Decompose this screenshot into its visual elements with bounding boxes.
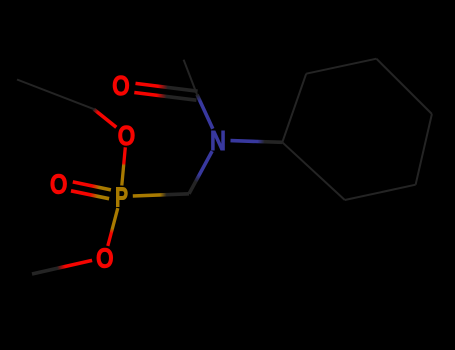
cyclohexyl ring bond 1 bbox=[282, 74, 306, 143]
svg-text:N: N bbox=[210, 126, 226, 157]
cyclohexyl ring bond 2 bbox=[306, 59, 376, 74]
bond O-CH3 (methyl ester) bbox=[32, 260, 92, 274]
bond N-C1 (N-cyclohexyl) bbox=[231, 141, 283, 143]
bond N-C (amide) bbox=[197, 95, 213, 129]
bond CH2-CH3 (ethyl) bbox=[17, 80, 94, 110]
bond O-CH2 (ethyl ester) bbox=[94, 109, 117, 127]
bond P-O (lower ester O) bbox=[108, 208, 118, 246]
bond C-CH3 (acetyl methyl) bbox=[184, 60, 197, 95]
bond P-O (upper ester O) bbox=[122, 147, 126, 185]
svg-text:P: P bbox=[115, 182, 128, 213]
svg-text:O: O bbox=[118, 121, 136, 152]
svg-text:O: O bbox=[112, 71, 130, 102]
bond N-CH2 bbox=[189, 151, 212, 194]
double bond P=O bbox=[73, 182, 111, 190]
svg-text:O: O bbox=[96, 243, 114, 274]
double bond C=O (carbonyl) bbox=[136, 83, 198, 91]
cyclohexyl ring bond 4 bbox=[416, 114, 432, 185]
svg-text:O: O bbox=[50, 169, 68, 200]
cyclohexyl ring bond 5 bbox=[345, 185, 416, 200]
bond P-CH2 bbox=[133, 194, 189, 196]
cyclohexyl ring bond 6 bbox=[282, 142, 345, 200]
cyclohexyl ring bond 3 bbox=[376, 59, 432, 114]
